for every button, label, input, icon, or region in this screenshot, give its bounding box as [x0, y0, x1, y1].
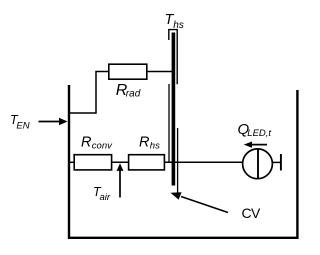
- wire R_hs to source: [164, 161, 242, 163]
- arrow T_EN: [39, 118, 68, 126]
- svg-text:EN: EN: [16, 120, 29, 131]
- enclosure open-top box: [69, 85, 297, 238]
- arrow T_air up: [117, 163, 124, 197]
- svg-text:conv: conv: [92, 140, 113, 151]
- resistor R_conv: [74, 155, 111, 170]
- resistor R_rad: [109, 64, 147, 79]
- wire R_rad right: [147, 71, 172, 73]
- thin line left of bar: [168, 84, 170, 162]
- arrow Q left: [244, 142, 267, 148]
- svg-text:rad: rad: [126, 89, 141, 100]
- current source vertical line: [257, 149, 259, 179]
- svg-text:R: R: [139, 135, 150, 151]
- svg-text:LED,t: LED,t: [247, 128, 271, 139]
- wire wall to R_conv: [70, 161, 75, 163]
- resistor R_hs: [129, 155, 165, 170]
- heat sink thick bar: [172, 33, 176, 186]
- bracket at top of heat sink: [169, 30, 177, 85]
- svg-text:R: R: [81, 135, 92, 151]
- svg-text:CV: CV: [242, 205, 262, 221]
- CV arrow: [171, 192, 229, 212]
- wire R_rad left branch: [70, 72, 109, 114]
- svg-text:hs: hs: [150, 140, 160, 151]
- wire between R_conv and R_hs: [112, 161, 129, 163]
- stub right of source: [272, 161, 280, 163]
- svg-text:air: air: [100, 192, 111, 203]
- current source circle: [243, 149, 273, 179]
- thin line right of bar (CV boundary): [177, 128, 179, 196]
- terminal bar: [280, 154, 282, 171]
